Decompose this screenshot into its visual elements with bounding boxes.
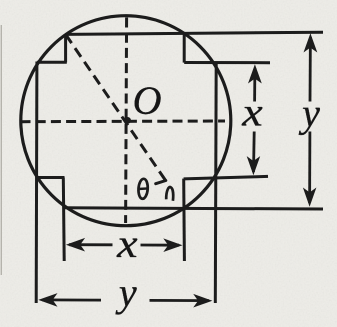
svg-text:y: y bbox=[298, 90, 320, 135]
svg-text:x: x bbox=[241, 91, 262, 135]
svg-text:x: x bbox=[116, 223, 137, 267]
svg-text:O: O bbox=[133, 78, 162, 123]
svg-text:y: y bbox=[115, 270, 137, 315]
